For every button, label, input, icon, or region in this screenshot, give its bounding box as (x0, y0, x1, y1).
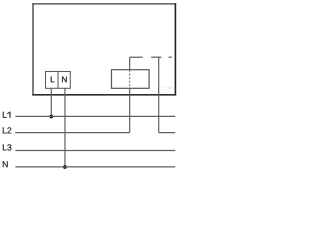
wire: vertical 1 lower segment down to net L2 (129, 88, 131, 132)
wire: terminal N down to net N (64, 88, 66, 167)
net label L1 (3, 112, 11, 118)
terminal block L/N outline (46, 72, 71, 89)
net N line (15, 166, 175, 168)
net L3 line (15, 150, 175, 152)
dash-dot control line (horizontal), drawn as measured dash segments (130, 56, 172, 58)
net L2 left segment (15, 132, 129, 134)
wire: vertical 1 upper segment (above relay box) (129, 57, 131, 69)
terminal block divider (57, 72, 59, 89)
device enclosure box (32, 3, 176, 95)
switch linkage dashed line through relay box (129, 70, 131, 88)
relay contact box (112, 70, 150, 89)
net label L2 (3, 127, 12, 133)
net label L3 (3, 144, 12, 150)
net label N (3, 161, 8, 167)
net L1 line (15, 115, 175, 117)
net L2 right segment (159, 132, 176, 134)
junction dot on L1 (49, 115, 53, 119)
junction dot on N (63, 165, 67, 169)
terminal label L (51, 77, 55, 83)
wire: terminal L down to net L1 (50, 88, 52, 116)
faint dashed marks near box bottom right (160, 86, 172, 89)
wire: vertical 2 from control line down to net L2 right segment (158, 57, 160, 132)
terminal label N (62, 77, 67, 83)
